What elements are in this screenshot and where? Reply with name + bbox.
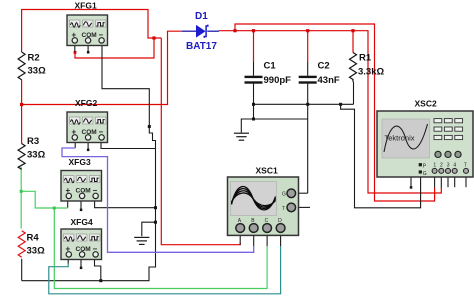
wire R1 top lead (352, 31, 354, 53)
function generator XFG4 (61, 217, 102, 260)
svg-text:XSC1: XSC1 (256, 166, 278, 176)
node junction R2/XFG1 loop (152, 36, 155, 39)
svg-text:G: G (423, 171, 427, 177)
svg-text:33Ω: 33Ω (27, 150, 46, 161)
wire C2 top lead (307, 31, 309, 62)
wire XFG2 plus pin stub (74, 140, 76, 148)
capacitor C1 (245, 61, 292, 87)
svg-text:3: 3 (447, 163, 450, 169)
wire C1 lower link to G vertical (254, 118, 308, 120)
svg-text:BAT17: BAT17 (186, 41, 217, 52)
svg-text:XFG4: XFG4 (71, 217, 93, 227)
svg-text:XSC2: XSC2 (415, 99, 437, 109)
wire net XFG1+/R2/XSC1.A : R2 top lead up (22, 10, 162, 53)
svg-text:T: T (464, 163, 467, 169)
node XFG4 COM open end (80, 267, 83, 270)
wire net diode anode / R2-R3 junction (21, 80, 23, 144)
svg-text:R4: R4 (27, 233, 40, 244)
svg-text:G: G (282, 192, 286, 198)
svg-text:2: 2 (440, 163, 443, 169)
node junction C2 bottom (306, 103, 309, 106)
svg-text:4: 4 (453, 163, 456, 169)
wire C2 bottom lead + XSC1 G vertical (307, 84, 309, 194)
wire horizontal to diode anode vertical (22, 31, 182, 104)
wire teal XFG4+ to XSC1 D (49, 246, 281, 294)
wire XSC2 terminal stubs (434, 174, 436, 188)
svg-text:3.3kΩ: 3.3kΩ (358, 67, 384, 78)
ground symbol below-left of XSC1 (134, 237, 149, 244)
node junction XFG1 minus bend (148, 125, 151, 128)
wire common minus vertical (22, 149, 156, 281)
wire XFG1 minus down and right (102, 46, 156, 149)
wire C1 bottom lead (253, 84, 255, 119)
wire green R3 bottom to R4 top (20, 167, 22, 229)
wire XFG1 plus pin stub (74, 43, 76, 51)
node junction green R3/R4 (20, 190, 23, 193)
wire C1 top lead (253, 31, 255, 62)
svg-text:R1: R1 (359, 53, 372, 64)
capacitor C2 (299, 61, 340, 87)
wire XFG3 COM stub (80, 199, 82, 210)
svg-text:D1: D1 (195, 11, 208, 22)
svg-text:C2: C2 (318, 61, 330, 72)
wire XFG2 minus to common vertical (101, 143, 156, 149)
svg-text:43nF: 43nF (318, 75, 340, 86)
svg-text:XFG2: XFG2 (75, 98, 97, 108)
wire ground staircase to XSC2 G (341, 104, 421, 208)
wire XSC1 T stub (296, 206, 310, 208)
resistor R2 (18, 52, 46, 80)
node junction XFG1 plus wire start (74, 51, 77, 54)
wire XFG3 minus (95, 201, 156, 208)
node junction C1 top (252, 29, 255, 32)
wire XFG4 COM stub (80, 257, 82, 267)
node junction C2 top (306, 29, 309, 32)
resistor R3 (18, 136, 45, 169)
svg-text:Tektronix: Tektronix (385, 134, 415, 143)
node junction green staircase (53, 207, 56, 210)
function generator XFG2 (67, 98, 108, 143)
wire green staircase to XFG3+ (21, 191, 67, 208)
node XFG2 COM open end (87, 149, 90, 152)
svg-text:990pF: 990pF (264, 75, 292, 86)
XSC2 terminal P (419, 163, 422, 166)
wire XFG4 plus pin stub (67, 257, 69, 263)
node junction R2/R3/diode-anode (20, 103, 23, 106)
oscilloscope XSC1 (228, 166, 299, 236)
node junction R1 top (351, 29, 354, 32)
wire vertical down to XSC1 A (161, 38, 240, 245)
wire ground rail y=104.3 (254, 103, 354, 105)
wire ground tap left of C1 (241, 119, 253, 133)
wire ground tap bottom-left of XSC1 (142, 222, 156, 236)
svg-text:C1: C1 (264, 61, 277, 72)
node XFG1 COM open end (87, 51, 90, 54)
wire XFG2 COM stub (87, 140, 89, 149)
node junction ground staircase tap (339, 103, 342, 106)
wire XSC1 B pin stub (253, 232, 255, 246)
svg-text:33Ω: 33Ω (28, 66, 47, 77)
wire XSC1 C pin stub (266, 232, 268, 246)
wire XFG4 minus (95, 260, 101, 281)
resistor R1 (350, 53, 385, 83)
node junction C1 bottom lower (252, 118, 255, 121)
svg-text:R3: R3 (27, 136, 39, 147)
svg-text:R2: R2 (28, 53, 40, 64)
node XFG3 COM open end (80, 209, 83, 212)
wire purple XFG2+ to XSC1 B (62, 148, 254, 252)
wire XSC1 D pin stub (280, 232, 282, 246)
svg-text:T: T (282, 206, 285, 212)
wire XSC1 G lead (296, 192, 308, 194)
node junction C1 bottom upper (252, 103, 255, 106)
wire XFG1 COM stub (87, 43, 89, 52)
oscilloscope XSC2 (Tektronix) (377, 99, 473, 178)
node XSC2 P stub end (410, 186, 413, 189)
wire XFG1 plus tap (75, 38, 154, 58)
wire line B diode cathode bus (219, 31, 441, 193)
diode D1 BAT17 (182, 11, 219, 52)
node junction ground tap (154, 221, 157, 224)
resistor R4 (red) (18, 231, 45, 257)
wire XFG3 plus pin stub (67, 199, 69, 208)
function generator XFG1 (67, 1, 108, 46)
wire XSC2 P stub (411, 165, 419, 188)
node junction XFG4 minus / R4 rail (99, 279, 102, 282)
node junction XFG3 minus (154, 206, 157, 209)
svg-text:XFG3: XFG3 (69, 157, 91, 167)
wire line A upper bus (235, 24, 435, 201)
wire R1 bottom lead (353, 82, 355, 104)
ground symbol below C1 (234, 133, 249, 140)
svg-text:1: 1 (433, 163, 436, 169)
svg-text:33Ω: 33Ω (27, 246, 46, 257)
XSC2 terminal G (419, 170, 422, 173)
function generator XFG3 (61, 157, 102, 201)
svg-text:XFG1: XFG1 (75, 1, 97, 11)
wire R4 bottom lead (21, 259, 23, 281)
wire green down to XSC1 C (54, 208, 267, 289)
node junction line A tap (233, 29, 236, 32)
wire XSC1 A pin stub (239, 232, 241, 244)
